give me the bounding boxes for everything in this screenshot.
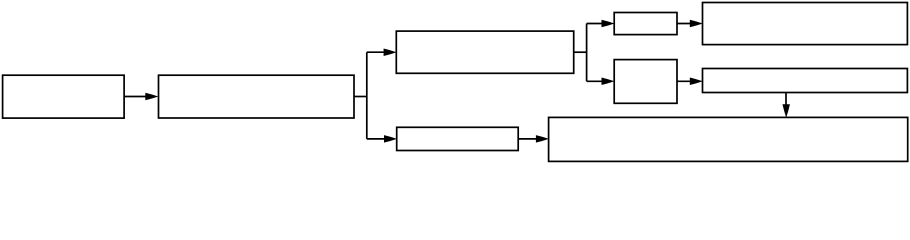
wire branch vertical from B — [366, 52, 368, 139]
arrowhead into I from D — [536, 135, 549, 143]
node box H (mid right) — [703, 69, 908, 93]
wire A to B — [124, 96, 152, 98]
wire H down to I — [785, 93, 787, 111]
arrowhead into I from H (down) — [782, 104, 790, 118]
wire branch to D — [367, 138, 390, 140]
wire E to G — [677, 23, 696, 25]
arrowhead into C — [384, 48, 397, 56]
wire C to branch point 2 — [574, 51, 587, 53]
node box C (upper branch) — [396, 31, 573, 73]
node box B (stage 2) — [159, 75, 355, 118]
wire branch vertical from C — [586, 24, 588, 82]
node box G (top right) — [703, 3, 908, 45]
wire branch to C — [367, 51, 389, 53]
wire branch to E — [587, 23, 607, 25]
node box D (lower branch) — [397, 127, 519, 150]
arrowhead into H — [690, 78, 703, 86]
node box F (small lower) — [614, 60, 677, 104]
node box A (stage 1) — [3, 75, 125, 118]
arrowhead into B — [145, 93, 158, 101]
wire D to I — [518, 138, 541, 140]
node box E (small upper) — [614, 13, 677, 35]
arrowhead into G — [690, 20, 703, 28]
wire B to branch point — [354, 96, 367, 98]
arrowhead into D — [384, 135, 397, 143]
node box I (bottom wide) — [549, 117, 908, 161]
arrowhead into F — [602, 78, 615, 86]
wire F to H — [677, 80, 696, 82]
wire branch to F — [587, 80, 607, 82]
arrowhead into E — [602, 20, 615, 28]
